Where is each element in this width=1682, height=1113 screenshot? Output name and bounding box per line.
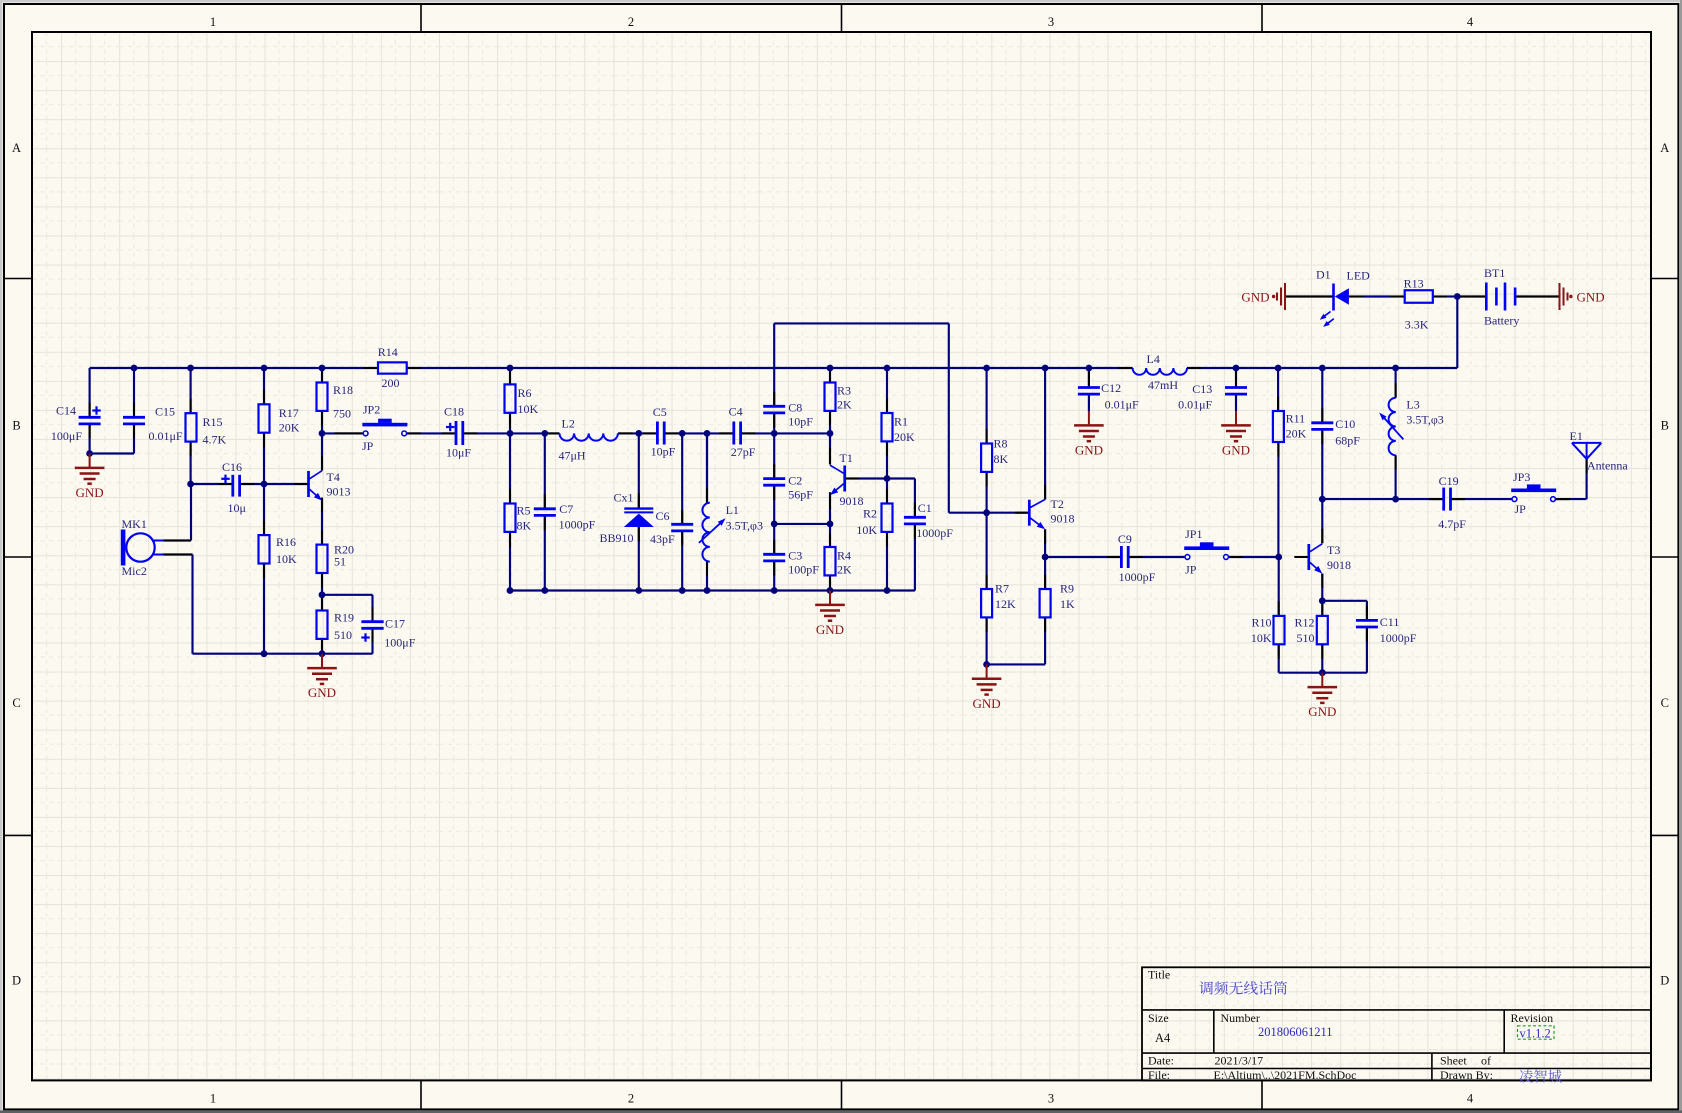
svg-text:T1: T1 <box>840 451 853 465</box>
wire C15 branch <box>133 368 135 454</box>
svg-text:R2: R2 <box>863 507 877 521</box>
wire signal row L2 C5 C4 <box>510 432 830 434</box>
ground under R19 <box>307 654 337 701</box>
wire JP1 to T3 base node <box>1229 556 1279 558</box>
svg-text:R9: R9 <box>1060 582 1074 596</box>
svg-text:L4: L4 <box>1147 352 1160 366</box>
svg-text:10pF: 10pF <box>788 414 813 428</box>
wire Cx1 column <box>638 433 640 590</box>
svg-text:File:: File: <box>1148 1068 1170 1082</box>
svg-text:2K: 2K <box>837 563 852 577</box>
resistor R7 <box>981 582 1016 618</box>
capacitor C7 <box>534 502 596 532</box>
wire R11 column <box>1277 368 1279 557</box>
svg-text:Antenna: Antenna <box>1587 459 1628 473</box>
svg-text:L3: L3 <box>1406 398 1419 412</box>
svg-text:27pF: 27pF <box>731 445 756 459</box>
svg-text:GND: GND <box>1222 443 1250 458</box>
wire output row <box>1322 498 1514 500</box>
svg-text:C12: C12 <box>1101 381 1121 395</box>
wire C7 column <box>544 433 546 590</box>
inductor L2 <box>559 417 618 463</box>
svg-text:100μF: 100μF <box>51 429 82 443</box>
svg-text:C16: C16 <box>222 460 242 474</box>
svg-text:Number: Number <box>1221 1011 1260 1025</box>
svg-text:Cx1: Cx1 <box>614 491 634 505</box>
svg-text:R15: R15 <box>203 415 223 429</box>
resistor R3 <box>825 383 853 412</box>
svg-text:GND: GND <box>308 685 336 700</box>
svg-text:C18: C18 <box>444 405 464 419</box>
wire R16 column <box>263 484 265 654</box>
wire node to JP2 <box>322 432 363 434</box>
jumper JP1 <box>1184 527 1229 577</box>
wire T1 collector <box>829 433 831 464</box>
ground under T2 stage <box>972 664 1002 711</box>
wire T2 ground rail <box>987 663 1046 665</box>
svg-text:2: 2 <box>628 15 634 29</box>
svg-text:3.5T,φ3: 3.5T,φ3 <box>726 519 763 533</box>
wire battery feed <box>1456 297 1458 369</box>
svg-text:4: 4 <box>1467 1092 1474 1106</box>
wire R19 column <box>321 595 323 654</box>
svg-text:JP: JP <box>362 439 374 453</box>
wire C13 column <box>1235 368 1237 388</box>
svg-text:2: 2 <box>628 1092 634 1106</box>
capacitor C14 <box>51 404 101 443</box>
svg-text:R3: R3 <box>837 384 851 398</box>
resistor R13 <box>1404 277 1433 332</box>
wire mic top <box>164 484 192 541</box>
svg-text:10K: 10K <box>1251 631 1272 645</box>
wire R5 column <box>509 433 511 590</box>
svg-text:10pF: 10pF <box>651 444 676 458</box>
wire R1 column <box>886 368 888 479</box>
svg-text:L1: L1 <box>726 503 739 517</box>
svg-text:C11: C11 <box>1380 615 1400 629</box>
svg-text:0.01μF: 0.01μF <box>149 429 183 443</box>
svg-text:E:\Altium\..\2021FM.SchDoc: E:\Altium\..\2021FM.SchDoc <box>1214 1068 1357 1082</box>
svg-text:4.7pF: 4.7pF <box>1438 517 1466 531</box>
capacitor C2 <box>763 474 813 502</box>
variable inductor L3 <box>1379 398 1444 456</box>
svg-text:C9: C9 <box>1118 532 1132 546</box>
svg-text:4: 4 <box>1467 15 1474 29</box>
svg-text:1K: 1K <box>1060 597 1075 611</box>
wire emitter row to C9 <box>1045 556 1121 558</box>
wire T2 emitter down <box>1044 529 1046 557</box>
jumper JP2 <box>362 403 407 454</box>
wire R8 column <box>986 368 988 513</box>
svg-text:E1: E1 <box>1570 429 1583 443</box>
transistor T1 <box>830 451 864 508</box>
svg-text:56pF: 56pF <box>788 487 813 501</box>
wire R6 column <box>509 368 511 433</box>
wire T2 base <box>987 512 1030 514</box>
svg-text:20K: 20K <box>894 430 915 444</box>
svg-text:v1.1.2: v1.1.2 <box>1520 1026 1551 1040</box>
svg-text:9018: 9018 <box>1327 558 1351 572</box>
svg-text:C17: C17 <box>385 616 405 630</box>
svg-text:2K: 2K <box>837 398 852 412</box>
wire JP2 to C18 <box>407 432 457 434</box>
resistor R20 <box>317 543 355 574</box>
svg-text:R19: R19 <box>334 611 354 625</box>
wire R2 column <box>886 479 888 591</box>
svg-text:GND: GND <box>76 485 104 500</box>
wire T3 collector <box>1321 499 1323 543</box>
svg-text:Mic2: Mic2 <box>122 564 147 578</box>
wire R4 column <box>829 524 831 591</box>
svg-text:200: 200 <box>382 376 400 390</box>
resistor R10 <box>1251 616 1285 645</box>
svg-text:1000pF: 1000pF <box>559 517 596 531</box>
svg-text:D: D <box>12 974 21 988</box>
wire R15 column <box>190 368 192 484</box>
resistor R12 <box>1294 616 1327 645</box>
svg-text:JP: JP <box>1185 563 1197 577</box>
transistor T3 <box>1309 543 1351 574</box>
svg-text:0.01μF: 0.01μF <box>1105 398 1139 412</box>
svg-text:9018: 9018 <box>840 494 864 508</box>
svg-text:LED: LED <box>1347 269 1371 283</box>
resistor R14 <box>378 345 407 390</box>
svg-text:10K: 10K <box>518 402 539 416</box>
svg-text:Size: Size <box>1148 1011 1169 1025</box>
svg-text:C10: C10 <box>1335 417 1355 431</box>
svg-text:3: 3 <box>1048 15 1054 29</box>
battery BT1 <box>1484 266 1519 328</box>
svg-text:D1: D1 <box>1316 268 1331 282</box>
capacitor C4 <box>729 405 756 459</box>
svg-text:C6: C6 <box>656 509 670 523</box>
wire JP3 to antenna <box>1553 459 1586 499</box>
svg-text:C3: C3 <box>788 549 802 563</box>
svg-text:R1: R1 <box>894 415 908 429</box>
component pins (black) <box>90 297 1587 659</box>
wire C13 to gnd <box>1235 394 1237 411</box>
wire L3 column <box>1395 368 1397 499</box>
svg-text:12K: 12K <box>995 597 1016 611</box>
capacitor C16 <box>221 460 246 515</box>
resistor R4 <box>825 547 853 577</box>
wire C12 to gnd <box>1088 394 1090 411</box>
wire RF ground rail <box>510 589 915 591</box>
wire C2 column <box>773 433 775 524</box>
svg-text:T3: T3 <box>1327 543 1340 557</box>
svg-text:201806061211: 201806061211 <box>1258 1025 1333 1039</box>
svg-text:L2: L2 <box>562 417 575 431</box>
capacitor C12 <box>1078 381 1139 412</box>
svg-text:C13: C13 <box>1192 382 1212 396</box>
capacitor C13 <box>1178 382 1247 412</box>
svg-text:Title: Title <box>1148 968 1170 982</box>
svg-text:GND: GND <box>1075 443 1103 458</box>
transistor T2 <box>1029 497 1074 529</box>
wire C12 column <box>1088 368 1090 388</box>
wire C10 column <box>1321 368 1323 499</box>
ground under C12 <box>1074 411 1104 458</box>
capacitor C5 <box>651 405 676 459</box>
wire C1 branch <box>887 479 915 591</box>
svg-text:R14: R14 <box>378 345 398 359</box>
svg-text:3: 3 <box>1048 1092 1054 1106</box>
svg-text:Date:: Date: <box>1148 1054 1174 1068</box>
svg-text:Drawn By:: Drawn By: <box>1440 1068 1493 1082</box>
svg-text:GND: GND <box>1241 290 1269 305</box>
svg-text:68pF: 68pF <box>1335 433 1360 447</box>
capacitor C18 <box>444 405 471 460</box>
svg-text:8K: 8K <box>994 452 1009 466</box>
svg-text:C19: C19 <box>1439 474 1459 488</box>
resistor R11 <box>1273 411 1307 442</box>
svg-text:8K: 8K <box>517 519 532 533</box>
power port GND left of LED <box>1241 283 1285 310</box>
svg-text:51: 51 <box>334 555 346 569</box>
svg-text:A4: A4 <box>1155 1031 1171 1045</box>
svg-text:C7: C7 <box>559 502 573 516</box>
svg-text:100μF: 100μF <box>384 635 415 649</box>
svg-text:A: A <box>1660 141 1669 155</box>
svg-text:3.3K: 3.3K <box>1405 318 1429 332</box>
wire mic bottom <box>164 555 193 654</box>
svg-text:9013: 9013 <box>327 485 351 499</box>
resistor R15 <box>186 413 227 446</box>
resistor R18 <box>317 383 354 421</box>
microphone MK1 <box>121 517 164 578</box>
jumper JP3 <box>1511 470 1556 516</box>
ground under T1 stage <box>815 591 845 638</box>
svg-text:47μH: 47μH <box>559 449 586 463</box>
wire R9 column <box>1044 557 1046 664</box>
wire C17 branch <box>322 595 373 654</box>
wire R18 column <box>321 368 323 433</box>
ground under C13 <box>1221 411 1251 458</box>
svg-text:R18: R18 <box>333 383 353 397</box>
wire C9 to JP1 <box>1128 556 1185 558</box>
inductor L4 <box>1133 352 1187 392</box>
svg-text:JP: JP <box>1515 502 1527 516</box>
wire T2 collector <box>1044 368 1046 499</box>
svg-text:B: B <box>1661 419 1669 433</box>
svg-text:4.7K: 4.7K <box>203 433 227 447</box>
svg-text:10K: 10K <box>276 552 297 566</box>
capacitor C11 <box>1356 615 1417 645</box>
svg-text:C2: C2 <box>788 474 802 488</box>
resistor R8 <box>981 437 1008 472</box>
svg-text:10K: 10K <box>856 523 877 537</box>
svg-text:R10: R10 <box>1251 616 1271 630</box>
wire C18 to R6 node <box>463 432 510 434</box>
transistor T4 <box>309 470 351 501</box>
svg-text:R16: R16 <box>276 535 296 549</box>
svg-text:B: B <box>12 419 20 433</box>
capacitor C3 <box>763 549 819 577</box>
svg-text:Sheet: Sheet <box>1440 1054 1467 1068</box>
svg-text:2021/3/17: 2021/3/17 <box>1215 1054 1264 1068</box>
resistor R2 <box>856 504 892 538</box>
wire C14 branch <box>90 368 134 454</box>
wire R10 column <box>1278 557 1280 673</box>
svg-text:3.5T,φ3: 3.5T,φ3 <box>1406 413 1443 427</box>
svg-text:C4: C4 <box>729 405 743 419</box>
wire C6 column <box>681 433 683 590</box>
title block <box>1142 967 1651 1082</box>
svg-text:1000pF: 1000pF <box>916 526 953 540</box>
svg-text:1: 1 <box>210 15 216 29</box>
svg-text:T2: T2 <box>1051 497 1064 511</box>
svg-text:GND: GND <box>973 696 1001 711</box>
svg-text:R17: R17 <box>279 406 299 420</box>
svg-text:T4: T4 <box>327 470 340 484</box>
svg-text:D: D <box>1660 974 1669 988</box>
wire C3 column <box>773 524 775 591</box>
svg-text:Revision: Revision <box>1511 1011 1554 1025</box>
wire R17 column <box>263 368 265 484</box>
resistor R1 <box>882 413 916 444</box>
wire T3 emitter down <box>1321 574 1323 601</box>
svg-text:R11: R11 <box>1286 412 1306 426</box>
wire R7 column <box>986 513 988 665</box>
LED D1 <box>1316 268 1370 327</box>
svg-text:750: 750 <box>333 407 351 421</box>
svg-text:C15: C15 <box>155 404 175 418</box>
resistor R5 <box>505 504 532 533</box>
wire R12 column <box>1321 601 1323 673</box>
svg-text:C1: C1 <box>918 501 932 515</box>
svg-text:C8: C8 <box>788 401 802 415</box>
wire L1 column <box>706 433 708 590</box>
svg-text:MK1: MK1 <box>122 517 147 531</box>
svg-text:A: A <box>12 141 21 155</box>
capacitor C19 <box>1438 474 1466 531</box>
wire C16 row <box>191 483 309 485</box>
svg-text:47mH: 47mH <box>1148 378 1178 392</box>
capacitor C1 <box>904 501 953 540</box>
resistor R16 <box>259 535 298 566</box>
svg-text:C: C <box>12 696 20 710</box>
svg-text:0.01μF: 0.01μF <box>1178 398 1212 412</box>
wire T3 ground rail <box>1279 672 1367 674</box>
wire VCC rail <box>90 367 1458 369</box>
svg-text:1000pF: 1000pF <box>1380 631 1417 645</box>
resistor R6 <box>505 384 539 416</box>
svg-text:BB910: BB910 <box>600 531 634 545</box>
svg-text:9018: 9018 <box>1051 512 1075 526</box>
svg-text:510: 510 <box>1297 631 1315 645</box>
svg-text:R12: R12 <box>1294 616 1314 630</box>
varactor diode Cx1 <box>600 491 654 546</box>
svg-text:JP1: JP1 <box>1185 527 1202 541</box>
ground under C14 <box>75 454 105 501</box>
svg-text:43pF: 43pF <box>650 532 675 546</box>
svg-text:R6: R6 <box>518 386 532 400</box>
svg-text:510: 510 <box>334 628 352 642</box>
svg-text:R7: R7 <box>995 582 1009 596</box>
resistor R17 <box>259 404 300 434</box>
svg-text:GND: GND <box>816 622 844 637</box>
svg-text:R13: R13 <box>1404 277 1424 291</box>
svg-text:100pF: 100pF <box>788 563 819 577</box>
resistor R19 <box>317 611 355 643</box>
wire T1 emitter down <box>829 492 831 524</box>
wire R3 column <box>829 368 831 433</box>
svg-text:R4: R4 <box>837 549 851 563</box>
wire LED row <box>1286 295 1560 297</box>
svg-text:10μF: 10μF <box>446 446 471 460</box>
svg-text:C5: C5 <box>653 405 667 419</box>
svg-text:10μ: 10μ <box>228 501 246 515</box>
capacitor C6 <box>650 509 693 546</box>
svg-text:1: 1 <box>210 1092 216 1106</box>
svg-text:Battery: Battery <box>1484 314 1519 328</box>
wire T4 collector to node <box>321 433 323 470</box>
svg-text:C: C <box>1661 696 1669 710</box>
svg-text:C14: C14 <box>56 404 76 418</box>
resistor R9 <box>1040 582 1075 618</box>
wire feedback loop <box>774 323 986 512</box>
wire T4 emitter to R20 <box>321 498 323 595</box>
variable inductor L1 <box>699 503 763 562</box>
wire T1 base to R1 node <box>845 477 887 479</box>
capacitor C9 <box>1118 532 1156 584</box>
capacitor C10 <box>1311 417 1360 447</box>
antenna E1 <box>1570 429 1629 473</box>
svg-text:R5: R5 <box>517 504 531 518</box>
wire C8 to node <box>773 413 775 433</box>
svg-text:GND: GND <box>1577 290 1605 305</box>
svg-text:1000pF: 1000pF <box>1119 570 1156 584</box>
power port GND right of battery <box>1560 283 1605 310</box>
wire audio ground rail <box>193 653 373 655</box>
wire T1 emitter node row <box>774 523 830 525</box>
ground under T3 stage <box>1308 673 1338 720</box>
svg-text:JP3: JP3 <box>1513 470 1530 484</box>
svg-text:GND: GND <box>1308 704 1336 719</box>
svg-text:BT1: BT1 <box>1484 266 1505 280</box>
svg-text:of: of <box>1481 1054 1491 1068</box>
capacitor C15 <box>123 404 183 442</box>
svg-text:20K: 20K <box>1286 427 1307 441</box>
svg-text:JP2: JP2 <box>363 403 380 417</box>
capacitor C8 <box>763 401 813 429</box>
svg-text:20K: 20K <box>279 421 300 435</box>
svg-text:R8: R8 <box>994 437 1008 451</box>
wire C11 branch <box>1322 601 1367 673</box>
capacitor C17 <box>361 616 415 649</box>
